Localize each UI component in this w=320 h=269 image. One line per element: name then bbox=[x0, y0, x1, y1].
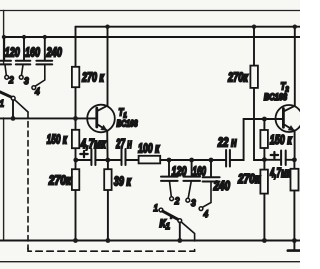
svg-text:39 к: 39 к bbox=[114, 175, 132, 189]
svg-text:BC108: BC108 bbox=[264, 91, 287, 102]
wire right bias vertical bbox=[254, 27, 264, 160]
svg-text:1: 1 bbox=[154, 203, 159, 213]
capacitor 120 left plates bbox=[0, 61, 11, 65]
svg-text:27 н: 27 н bbox=[115, 138, 132, 151]
node B junction bbox=[262, 157, 267, 162]
wire lower supply rail bbox=[4, 36, 300, 38]
node bottom rail left 270k bbox=[73, 238, 78, 243]
resistor R 270k top-left bbox=[72, 67, 79, 87]
svg-text:150 к: 150 к bbox=[270, 134, 292, 148]
switch K1a wiper circle bbox=[11, 96, 15, 100]
svg-text:22 н: 22 н bbox=[217, 136, 237, 150]
svg-text:160: 160 bbox=[25, 46, 40, 60]
switch contact 3 left circle bbox=[19, 75, 23, 79]
ground stub right bbox=[293, 241, 295, 251]
node bank1 c1 bbox=[2, 35, 6, 39]
node bank1 c3 bbox=[43, 35, 47, 39]
ground bar right bbox=[288, 249, 300, 252]
wire left bias vertical bbox=[75, 27, 77, 160]
capacitor 160 right plates bbox=[183, 177, 200, 181]
switch contact 3 right circle bbox=[186, 198, 190, 202]
transistor T2 collector bbox=[283, 27, 294, 112]
wire node B to cap right bbox=[264, 159, 281, 161]
node T2 base junction bbox=[262, 117, 267, 122]
resistor R 270k top-right bbox=[250, 66, 258, 88]
node A junction bbox=[73, 158, 78, 163]
node bottom rail 39k bbox=[106, 238, 111, 243]
node bottom rail right 270k bbox=[262, 238, 267, 243]
node K1b bottom rail bbox=[177, 238, 182, 243]
wire upper supply rail bbox=[76, 26, 301, 28]
node T1 collector rail bbox=[105, 25, 109, 29]
resistor R 150k left bbox=[72, 130, 79, 148]
switch K1b link diagonal bbox=[181, 222, 194, 241]
switch contact 2 right circle bbox=[170, 197, 174, 201]
capacitor 120 right plates bbox=[161, 177, 178, 181]
resistor R 270k bottom-right bbox=[260, 170, 268, 194]
node bank1 c2 bbox=[22, 35, 26, 39]
node T1 base junction bbox=[73, 116, 78, 121]
resistor R emitter right clipped bbox=[291, 160, 299, 241]
switch contact 3 right tail bbox=[188, 181, 191, 198]
transistor T2 emitter arrow bbox=[288, 125, 295, 131]
right capacitor bank node 2 bbox=[189, 158, 194, 163]
frame left border bbox=[3, 11, 5, 241]
svg-text:100 к: 100 к bbox=[138, 142, 160, 156]
right capacitor bank node 1 bbox=[167, 158, 172, 163]
switch contact 2 left tail bbox=[5, 65, 6, 76]
svg-text:4,7мк: 4,7мк bbox=[80, 138, 107, 152]
svg-text:4: 4 bbox=[204, 209, 209, 219]
svg-text:150 к: 150 к bbox=[47, 133, 68, 147]
wire K1b wiper down bbox=[179, 223, 181, 241]
frame bottom border bbox=[0, 261, 300, 263]
switch gang link dashed horizontal bbox=[28, 246, 195, 251]
svg-text:4: 4 bbox=[35, 86, 40, 96]
transistor T1 emitter arrow bbox=[100, 125, 107, 131]
resistor R 100k horizontal bbox=[139, 156, 161, 164]
right capacitor bank stub 3 bbox=[210, 160, 212, 177]
node bottom rail right emitter bbox=[292, 238, 297, 243]
svg-text:BC108: BC108 bbox=[117, 119, 138, 129]
transistor T2 emitter bbox=[283, 124, 294, 160]
transistor T1 base bar bbox=[95, 108, 98, 127]
svg-text:4,7мк: 4,7мк bbox=[269, 167, 291, 180]
capacitor 240 right plates bbox=[203, 177, 220, 181]
right capacitor bank stub 1 bbox=[168, 160, 170, 176]
wire cap to emitter node bbox=[95, 159, 121, 161]
switch K1a link diagonal bbox=[15, 100, 28, 112]
svg-text:2: 2 bbox=[174, 196, 180, 206]
svg-text:120: 120 bbox=[5, 46, 20, 60]
capacitor C 4.7uF right plus sign bbox=[271, 152, 278, 158]
svg-text:240: 240 bbox=[46, 46, 62, 60]
switch K1b wiper arm bbox=[163, 211, 178, 219]
wire 22n to T2 base riser bbox=[230, 119, 283, 160]
left capacitor bank stub 2 bbox=[23, 37, 25, 60]
wire bottom ground rail bbox=[0, 240, 300, 242]
svg-text:270 к: 270 к bbox=[81, 71, 104, 85]
switch contact 4 right tail bbox=[202, 182, 211, 207]
transistor T1 collector bbox=[97, 27, 108, 112]
switch contact 2 right tail bbox=[170, 181, 172, 196]
wire cap to T2 emitter bbox=[286, 159, 295, 161]
left capacitor bank stub 3 bbox=[44, 37, 46, 60]
switch gang link dashed vertical left bbox=[27, 112, 29, 249]
node emitter junction bbox=[105, 158, 110, 163]
switch contact 2 left circle bbox=[5, 75, 9, 79]
switch contact 4 right circle bbox=[199, 207, 203, 211]
svg-text:270к: 270к bbox=[237, 173, 261, 186]
capacitor C 4.7uF left plus sign bbox=[80, 151, 87, 157]
node T2 emitter junction bbox=[292, 157, 297, 162]
svg-text:2: 2 bbox=[8, 75, 14, 85]
wire 27n to 100k bbox=[126, 159, 139, 161]
switch K1b wiper circle bbox=[178, 219, 182, 223]
capacitor 160 left plates bbox=[16, 61, 30, 65]
switch K1b contact 1 circle bbox=[159, 208, 163, 212]
capacitor C 27n plates bbox=[122, 149, 126, 165]
wire node A down bbox=[75, 160, 77, 241]
svg-text:1: 1 bbox=[0, 98, 4, 108]
node right bias rail bbox=[252, 25, 256, 29]
transistor T2 circle bbox=[276, 105, 303, 132]
wire 150k right chain bbox=[263, 119, 265, 241]
left capacitor bank stub 1 bbox=[3, 37, 5, 60]
svg-text:3: 3 bbox=[191, 197, 196, 207]
capacitor C 4.7uF left plates bbox=[91, 149, 95, 165]
resistor R 150k right bbox=[260, 130, 268, 148]
frame top border bbox=[0, 10, 300, 12]
wire T1 base bbox=[0, 117, 97, 119]
transistor T1 emitter bbox=[97, 124, 108, 160]
transistor T1 circle bbox=[87, 105, 115, 133]
capacitor 240 left plates bbox=[36, 61, 52, 65]
switch contact 4 left circle bbox=[32, 86, 36, 90]
transistor T2 base bar bbox=[282, 109, 285, 128]
switch K1a wiper arm bbox=[0, 92, 12, 98]
capacitor C 4.7uF right plates bbox=[281, 151, 286, 166]
capacitor C 22n plates bbox=[226, 150, 230, 167]
right capacitor bank stub 2 bbox=[191, 160, 193, 176]
switch contact 3 left tail bbox=[22, 65, 24, 76]
node K1a base wire bbox=[11, 116, 16, 121]
svg-text:3: 3 bbox=[24, 76, 29, 86]
resistor R 39k bbox=[104, 160, 111, 241]
switch contact 4 left tail bbox=[35, 65, 45, 86]
right capacitor bank node 3 bbox=[209, 158, 214, 163]
wire node A horizontal bbox=[76, 159, 92, 161]
svg-text:270к: 270к bbox=[48, 175, 72, 188]
svg-text:270к: 270к bbox=[227, 71, 248, 85]
node T2 collector rail bbox=[293, 25, 297, 29]
svg-text:240: 240 bbox=[213, 180, 231, 193]
wire 100k to cap bank 2 bbox=[160, 159, 226, 161]
wire K1a wiper to base bbox=[12, 100, 14, 118]
resistor R 270k bottom-left bbox=[72, 169, 79, 190]
